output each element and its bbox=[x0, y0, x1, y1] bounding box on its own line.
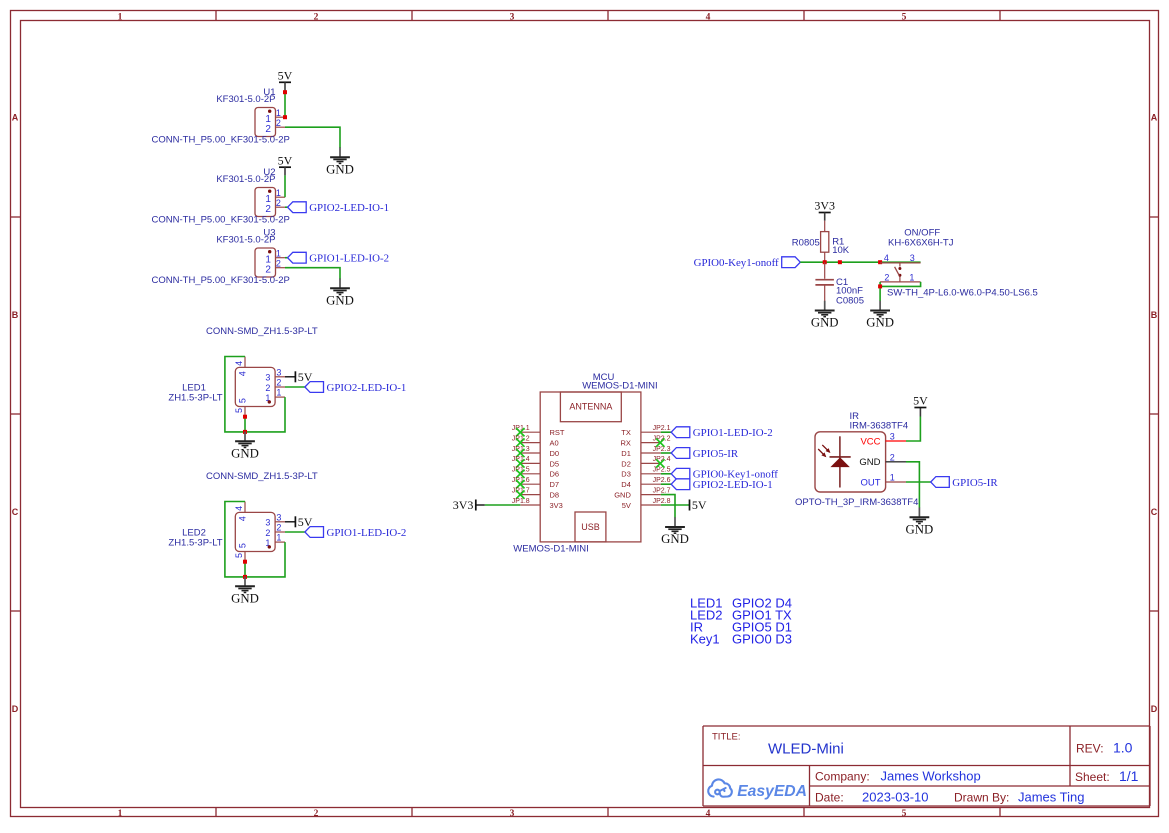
svg-text:3V3: 3V3 bbox=[453, 498, 474, 512]
svg-text:JP2.3: JP2.3 bbox=[653, 446, 671, 453]
svg-text:2: 2 bbox=[265, 383, 270, 393]
svg-text:GPIO1-LED-IO-2: GPIO1-LED-IO-2 bbox=[693, 427, 773, 439]
svg-text:SW-TH_4P-L6.0-W6.0-P4.50-LS6.5: SW-TH_4P-L6.0-W6.0-P4.50-LS6.5 bbox=[887, 288, 1038, 299]
svg-text:GND: GND bbox=[866, 316, 894, 330]
svg-text:1: 1 bbox=[890, 473, 895, 483]
svg-text:1: 1 bbox=[118, 12, 123, 22]
svg-text:ZH1.5-3P-LT: ZH1.5-3P-LT bbox=[168, 538, 222, 549]
svg-text:GPIO5-IR: GPIO5-IR bbox=[952, 477, 998, 489]
svg-text:GND: GND bbox=[231, 591, 259, 605]
svg-text:5V: 5V bbox=[278, 153, 293, 167]
svg-text:GPIO2-LED-IO-1: GPIO2-LED-IO-1 bbox=[693, 479, 773, 491]
svg-text:USB: USB bbox=[581, 522, 600, 532]
svg-text:3: 3 bbox=[910, 253, 915, 263]
svg-text:B: B bbox=[12, 310, 19, 320]
svg-text:D: D bbox=[12, 704, 19, 714]
svg-text:GND: GND bbox=[614, 491, 631, 500]
svg-text:CONN-SMD_ZH1.5-3P-LT: CONN-SMD_ZH1.5-3P-LT bbox=[206, 326, 318, 337]
svg-text:4: 4 bbox=[238, 516, 248, 521]
svg-text:KF301-5.0-2P: KF301-5.0-2P bbox=[216, 94, 275, 105]
svg-text:JP1.8: JP1.8 bbox=[512, 498, 530, 505]
svg-text:2: 2 bbox=[265, 124, 271, 135]
svg-text:KH-6X6X6H-TJ: KH-6X6X6H-TJ bbox=[888, 237, 954, 248]
svg-text:4: 4 bbox=[706, 809, 711, 819]
svg-text:R0805: R0805 bbox=[792, 237, 820, 248]
svg-text:James Workshop: James Workshop bbox=[881, 769, 981, 784]
svg-text:4: 4 bbox=[234, 361, 244, 366]
svg-text:2: 2 bbox=[314, 12, 319, 22]
svg-text:GND: GND bbox=[326, 293, 354, 307]
svg-text:Sheet:: Sheet: bbox=[1075, 770, 1110, 784]
svg-text:James Ting: James Ting bbox=[1018, 789, 1084, 804]
svg-text:1.0: 1.0 bbox=[1113, 740, 1133, 756]
svg-text:GPIO0-Key1-onoff: GPIO0-Key1-onoff bbox=[694, 257, 779, 269]
svg-text:WEMOS-D1-MINI: WEMOS-D1-MINI bbox=[513, 544, 588, 555]
svg-text:2: 2 bbox=[276, 378, 281, 388]
svg-text:2: 2 bbox=[276, 118, 281, 128]
svg-text:3: 3 bbox=[265, 373, 270, 383]
svg-text:D3: D3 bbox=[621, 470, 631, 479]
svg-text:5V: 5V bbox=[692, 498, 707, 512]
svg-text:2: 2 bbox=[265, 528, 270, 538]
svg-text:4: 4 bbox=[884, 253, 889, 263]
svg-text:CONN-TH_P5.00_KF301-5.0-2P: CONN-TH_P5.00_KF301-5.0-2P bbox=[152, 275, 290, 286]
svg-text:JP2.6: JP2.6 bbox=[653, 477, 671, 484]
svg-text:OPTO-TH_3P_IRM-3638TF4: OPTO-TH_3P_IRM-3638TF4 bbox=[795, 497, 918, 508]
svg-text:2: 2 bbox=[314, 809, 319, 819]
svg-text:3: 3 bbox=[510, 12, 515, 22]
svg-text:3V3: 3V3 bbox=[814, 199, 835, 213]
svg-text:5: 5 bbox=[902, 809, 907, 819]
svg-text:D4: D4 bbox=[621, 480, 631, 489]
svg-text:2: 2 bbox=[276, 523, 281, 533]
svg-text:C0805: C0805 bbox=[836, 295, 864, 306]
svg-text:JP2.1: JP2.1 bbox=[653, 425, 671, 432]
svg-text:ZH1.5-3P-LT: ZH1.5-3P-LT bbox=[168, 393, 222, 404]
svg-text:KF301-5.0-2P: KF301-5.0-2P bbox=[216, 235, 275, 246]
svg-text:D5: D5 bbox=[550, 459, 560, 468]
svg-text:GPIO5-IR: GPIO5-IR bbox=[693, 448, 739, 460]
svg-text:5: 5 bbox=[902, 12, 907, 22]
svg-text:10K: 10K bbox=[832, 245, 850, 256]
svg-text:GND: GND bbox=[661, 532, 689, 546]
svg-text:ANTENNA: ANTENNA bbox=[569, 401, 612, 411]
svg-text:1: 1 bbox=[276, 108, 281, 118]
svg-text:JP2.5: JP2.5 bbox=[653, 467, 671, 474]
svg-text:Key1: Key1 bbox=[690, 632, 720, 647]
svg-text:3: 3 bbox=[276, 367, 281, 377]
svg-text:2: 2 bbox=[884, 272, 889, 282]
svg-text:A: A bbox=[12, 113, 19, 123]
svg-text:RX: RX bbox=[620, 439, 630, 448]
svg-text:VCC: VCC bbox=[860, 436, 880, 447]
svg-text:2023-03-10: 2023-03-10 bbox=[862, 789, 929, 804]
svg-text:D2: D2 bbox=[621, 459, 631, 468]
svg-text:TX: TX bbox=[621, 428, 631, 437]
svg-text:D6: D6 bbox=[550, 470, 560, 479]
svg-text:5: 5 bbox=[234, 553, 244, 558]
svg-text:2: 2 bbox=[265, 204, 271, 215]
svg-text:1/1: 1/1 bbox=[1119, 768, 1139, 784]
svg-text:C: C bbox=[1151, 507, 1158, 517]
svg-text:3V3: 3V3 bbox=[550, 501, 563, 510]
svg-text:TITLE:: TITLE: bbox=[712, 732, 741, 743]
svg-text:D7: D7 bbox=[550, 480, 560, 489]
svg-text:Date:: Date: bbox=[815, 790, 844, 804]
svg-text:IRM-3638TF4: IRM-3638TF4 bbox=[850, 421, 909, 432]
svg-text:RST: RST bbox=[550, 428, 565, 437]
svg-text:4: 4 bbox=[234, 506, 244, 511]
svg-text:GND: GND bbox=[811, 316, 839, 330]
svg-text:5: 5 bbox=[234, 408, 244, 413]
svg-text:3: 3 bbox=[265, 518, 270, 528]
svg-text:EasyEDA: EasyEDA bbox=[737, 783, 807, 800]
svg-text:GND: GND bbox=[231, 446, 259, 460]
svg-text:GND: GND bbox=[906, 522, 934, 536]
svg-text:GND: GND bbox=[859, 457, 880, 468]
svg-text:WLED-Mini: WLED-Mini bbox=[768, 741, 844, 758]
svg-text:A: A bbox=[1151, 113, 1158, 123]
svg-text:GPIO1-LED-IO-2: GPIO1-LED-IO-2 bbox=[327, 527, 407, 539]
svg-text:4: 4 bbox=[706, 12, 711, 22]
svg-text:B: B bbox=[1151, 310, 1158, 320]
svg-text:Company:: Company: bbox=[815, 770, 870, 784]
svg-text:2: 2 bbox=[276, 198, 281, 208]
svg-text:JP2.7: JP2.7 bbox=[653, 487, 671, 494]
svg-text:3: 3 bbox=[890, 432, 895, 442]
svg-text:3: 3 bbox=[276, 512, 281, 522]
svg-text:CONN-TH_P5.00_KF301-5.0-2P: CONN-TH_P5.00_KF301-5.0-2P bbox=[152, 135, 290, 146]
svg-text:1: 1 bbox=[118, 809, 123, 819]
svg-text:GPIO2-LED-IO-1: GPIO2-LED-IO-1 bbox=[327, 382, 407, 394]
svg-text:A0: A0 bbox=[550, 439, 559, 448]
svg-text:OUT: OUT bbox=[860, 477, 880, 488]
svg-text:GND: GND bbox=[326, 162, 354, 176]
svg-text:D0: D0 bbox=[550, 449, 560, 458]
svg-text:CONN-SMD_ZH1.5-3P-LT: CONN-SMD_ZH1.5-3P-LT bbox=[206, 471, 318, 482]
svg-text:D8: D8 bbox=[550, 491, 560, 500]
svg-text:GPIO2-LED-IO-1: GPIO2-LED-IO-1 bbox=[309, 202, 389, 214]
svg-text:1: 1 bbox=[276, 249, 281, 259]
svg-text:5: 5 bbox=[238, 398, 248, 403]
svg-text:WEMOS-D1-MINI: WEMOS-D1-MINI bbox=[582, 380, 657, 391]
svg-text:GPIO0 D3: GPIO0 D3 bbox=[732, 632, 792, 647]
svg-text:1: 1 bbox=[276, 533, 281, 543]
svg-text:CONN-TH_P5.00_KF301-5.0-2P: CONN-TH_P5.00_KF301-5.0-2P bbox=[152, 215, 290, 226]
svg-text:5V: 5V bbox=[913, 394, 928, 408]
svg-text:D1: D1 bbox=[621, 449, 631, 458]
svg-text:D: D bbox=[1151, 704, 1158, 714]
svg-text:1: 1 bbox=[909, 272, 914, 282]
svg-text:Drawn By:: Drawn By: bbox=[954, 790, 1009, 804]
svg-text:5V: 5V bbox=[622, 501, 631, 510]
svg-text:C: C bbox=[12, 507, 19, 517]
svg-text:5V: 5V bbox=[278, 68, 293, 82]
svg-text:3: 3 bbox=[510, 809, 515, 819]
svg-text:2: 2 bbox=[276, 259, 281, 269]
svg-text:KF301-5.0-2P: KF301-5.0-2P bbox=[216, 174, 275, 185]
svg-text:1: 1 bbox=[276, 188, 281, 198]
svg-text:1: 1 bbox=[276, 388, 281, 398]
svg-text:2: 2 bbox=[890, 452, 895, 462]
svg-text:GPIO1-LED-IO-2: GPIO1-LED-IO-2 bbox=[309, 253, 389, 265]
svg-text:REV:: REV: bbox=[1076, 742, 1104, 756]
svg-text:2: 2 bbox=[265, 264, 271, 275]
svg-text:4: 4 bbox=[238, 371, 248, 376]
svg-text:5: 5 bbox=[238, 543, 248, 548]
svg-text:JP2.8: JP2.8 bbox=[653, 498, 671, 505]
